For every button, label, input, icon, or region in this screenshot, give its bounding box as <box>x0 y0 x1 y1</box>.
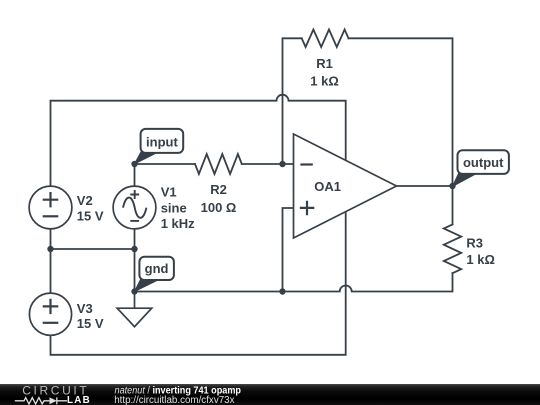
node label output <box>453 150 509 186</box>
svg-text:LAB: LAB <box>67 395 91 405</box>
node label gnd <box>135 257 174 292</box>
svg-text:gnd: gnd <box>145 261 169 276</box>
wire V+ rail from V2 top with hop over R1 leg <box>51 95 346 186</box>
junction dot non-inverting branch on gnd rail <box>279 288 285 294</box>
footer logo resistor-diode glyph <box>15 397 67 404</box>
voltage source V1 (sine) <box>113 186 156 229</box>
R3 value label <box>466 236 495 267</box>
svg-text:V1: V1 <box>161 184 177 199</box>
footer bar <box>0 384 540 405</box>
V3 value label <box>77 301 104 331</box>
svg-text:sine: sine <box>161 200 187 215</box>
wire R1 left leg <box>283 38 302 164</box>
resistor R3 <box>444 224 462 273</box>
svg-text:15 V: 15 V <box>77 208 104 223</box>
junction dot V1 bottom branch <box>131 246 137 252</box>
R1 value label <box>310 56 339 89</box>
svg-text:100 Ω: 100 Ω <box>201 200 237 215</box>
svg-text:output: output <box>463 155 504 170</box>
wire input node to R2 <box>135 163 196 165</box>
svg-text:V3: V3 <box>77 301 93 316</box>
op-amp OA1 <box>294 134 397 238</box>
ground <box>117 292 152 327</box>
junction dot R1 leg / inverting input <box>279 161 285 167</box>
svg-text:15 V: 15 V <box>77 316 104 331</box>
wire op-amp non-inverting input down to gnd rail <box>283 208 294 292</box>
svg-text:1 kHz: 1 kHz <box>161 216 195 231</box>
voltage source V2 <box>29 186 72 229</box>
wire V3 bottom to op-amp V- rail <box>51 212 346 355</box>
junction dot output node <box>449 183 455 189</box>
wire R2 to op-amp inverting input <box>242 163 294 165</box>
resistor R1 <box>302 30 349 48</box>
svg-text:R3: R3 <box>466 236 483 251</box>
svg-text:OA1: OA1 <box>314 179 341 194</box>
wire op-amp output <box>397 185 453 187</box>
R2 value label <box>201 182 237 215</box>
V1 value label <box>161 184 195 231</box>
wire V1 bottom down to gnd node <box>134 229 136 292</box>
node label input <box>135 129 184 164</box>
wire supply midpoint branch <box>51 248 135 250</box>
V2 value label <box>77 193 104 223</box>
wire gnd rail with hop over V- wire <box>135 273 453 291</box>
svg-text:R2: R2 <box>210 182 227 197</box>
wire R1 right lead down to R3 top <box>349 38 453 224</box>
svg-text:R1: R1 <box>316 56 333 71</box>
wire V2 bottom to V3 top <box>50 229 52 293</box>
svg-text:V2: V2 <box>77 193 93 208</box>
junction dot gnd node <box>131 288 137 294</box>
resistor R2 <box>195 154 242 174</box>
voltage source V3 <box>29 293 71 335</box>
wire V1 top lead <box>134 164 136 186</box>
junction dot input node <box>131 161 137 167</box>
junction dot V2-V3 midpoint <box>47 246 53 252</box>
svg-text:input: input <box>146 135 178 150</box>
svg-text:http://circuitlab.com/cfxv73x: http://circuitlab.com/cfxv73x <box>114 395 234 405</box>
svg-text:1 kΩ: 1 kΩ <box>466 252 495 267</box>
svg-text:1 kΩ: 1 kΩ <box>310 74 339 89</box>
